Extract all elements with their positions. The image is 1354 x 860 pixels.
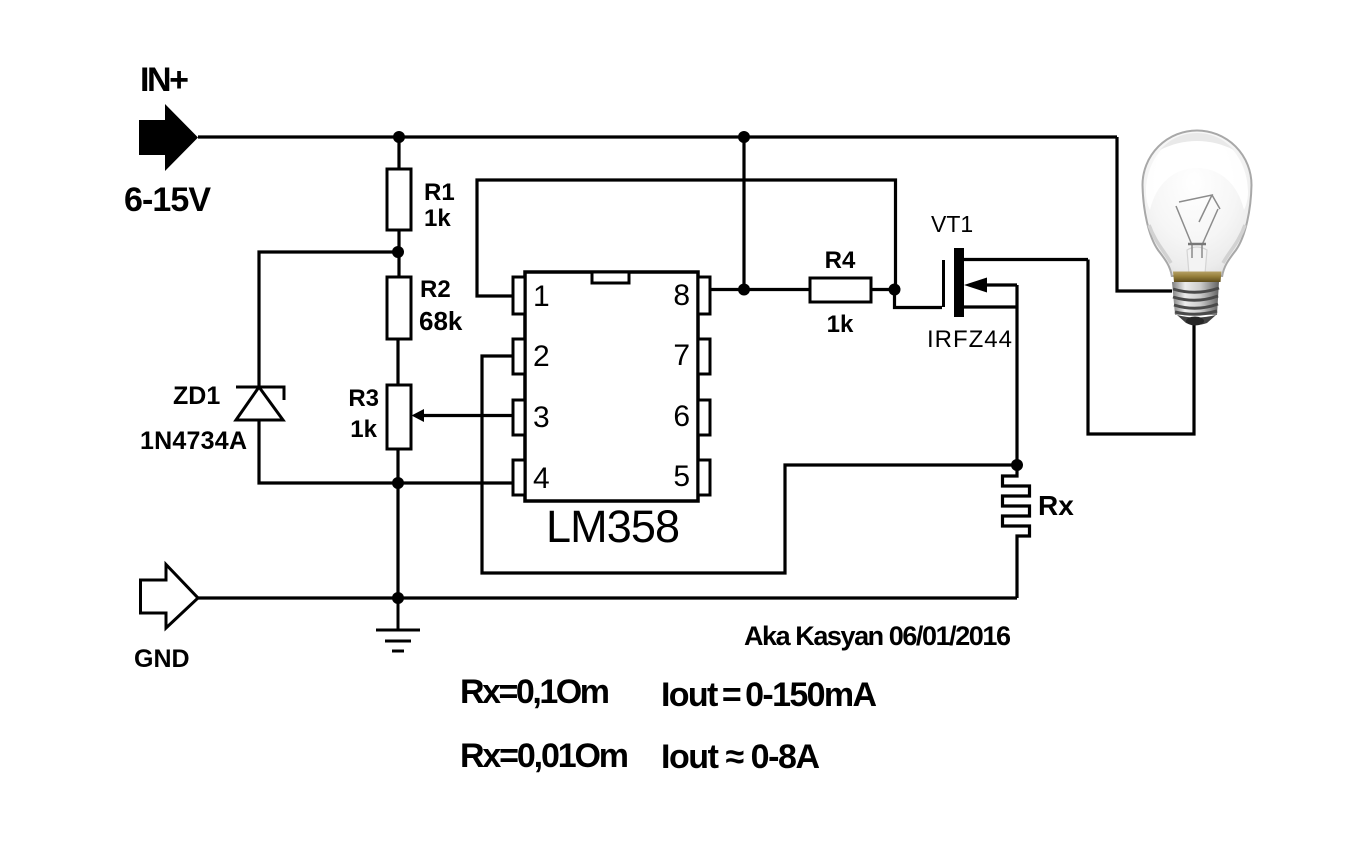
wire R2 bottom to R3 top bbox=[396, 337, 399, 385]
pin 5 tab bbox=[698, 460, 710, 495]
source terminal IN+ arrow bbox=[139, 104, 198, 171]
transistor VT1 gate plate bbox=[942, 260, 945, 307]
bulb bottom tip bbox=[1186, 317, 1204, 326]
svg-text:GND: GND bbox=[134, 645, 190, 673]
junction node dots bbox=[392, 131, 1023, 604]
transistor VT1 channel bar bbox=[954, 248, 964, 317]
svg-text:R4: R4 bbox=[825, 247, 856, 274]
bulb screw threads bbox=[1173, 288, 1219, 314]
svg-text:Iout ≈ 0-8A: Iout ≈ 0-8A bbox=[661, 738, 820, 776]
lamp EL1 (light bulb) bbox=[1143, 130, 1252, 325]
bulb glass globe bbox=[1143, 130, 1252, 276]
svg-text:1k: 1k bbox=[350, 416, 377, 443]
wire V+ to R1 top bbox=[397, 137, 400, 168]
potentiometer R3 bbox=[387, 385, 411, 449]
bulb inner stem bbox=[1187, 247, 1207, 274]
svg-text:Aka Kasyan 06/01/2016: Aka Kasyan 06/01/2016 bbox=[744, 621, 1011, 651]
svg-text:IRFZ44: IRFZ44 bbox=[927, 326, 1012, 353]
node R4 / gate bbox=[889, 284, 901, 296]
pin 7 tab bbox=[698, 339, 710, 374]
bulb bottom contact bbox=[1177, 315, 1216, 325]
ground symbol bbox=[376, 598, 420, 651]
wire GND rail bbox=[198, 596, 1017, 599]
node GND rail bbox=[392, 592, 404, 604]
svg-text:1: 1 bbox=[533, 280, 550, 313]
wire pin 8 to R4 left bbox=[709, 288, 810, 291]
wire MOSFET source lead bbox=[964, 305, 1017, 308]
svg-text:7: 7 bbox=[673, 339, 690, 372]
zener diode ZD1 triangle bbox=[236, 387, 283, 420]
wire MOSFET body lead bbox=[985, 283, 1017, 286]
svg-text:ZD1: ZD1 bbox=[173, 382, 220, 410]
pin 6 tab bbox=[698, 400, 710, 435]
svg-text:1k: 1k bbox=[827, 311, 854, 338]
transistor VT1 body arrow bbox=[964, 278, 987, 293]
wire top rail down to bulb base bbox=[1117, 137, 1172, 291]
pin 1 tab bbox=[513, 277, 525, 314]
wire pin 1 feedback to gate node bbox=[477, 180, 896, 296]
node R1/R2/ZD1 bbox=[392, 246, 404, 258]
wire R1 bottom to R2 top bbox=[397, 229, 400, 278]
node pin8 / V+ bbox=[738, 284, 750, 296]
bulb brass ring bbox=[1173, 272, 1222, 283]
svg-text:2: 2 bbox=[533, 340, 550, 373]
svg-text:68k: 68k bbox=[419, 306, 463, 336]
svg-text:6: 6 bbox=[673, 400, 690, 433]
pin 4 tab bbox=[513, 460, 525, 495]
svg-text:R3: R3 bbox=[348, 385, 379, 412]
wire gate node to MOSFET gate bbox=[895, 289, 943, 308]
svg-text:1N4734A: 1N4734A bbox=[140, 427, 247, 455]
resistor R2 bbox=[387, 277, 411, 339]
wire pin 2 to Rx top node bbox=[482, 356, 1017, 573]
resistor Rx comb bbox=[1003, 465, 1030, 598]
node source / Rx top bbox=[1011, 459, 1023, 471]
wire V+ rail to pin8 node bbox=[742, 137, 745, 289]
pin 3 tab bbox=[513, 400, 525, 435]
node top rail / R1 bbox=[393, 131, 405, 143]
bulb screw base bbox=[1172, 282, 1219, 315]
pin 2 tab bbox=[513, 339, 525, 374]
wire drain to bulb bottom loop bbox=[1088, 260, 1194, 435]
op-amp notch bbox=[592, 272, 629, 283]
bulb glass top cap shade bbox=[1160, 133, 1234, 150]
svg-text:6-15V: 6-15V bbox=[124, 181, 211, 219]
wire ZD1 bottom to pin 4 bbox=[259, 420, 513, 483]
svg-text:Iout = 0-150mA: Iout = 0-150mA bbox=[661, 676, 877, 714]
svg-text:Rx: Rx bbox=[1038, 490, 1074, 521]
bulb glass highlight bbox=[1146, 133, 1248, 210]
terminal GND arrow bbox=[141, 565, 199, 629]
wire source down to Rx node bbox=[1015, 285, 1018, 465]
resistor R4 bbox=[810, 278, 871, 302]
resistor R1 bbox=[387, 169, 411, 230]
svg-text:Rx=0,1Om: Rx=0,1Om bbox=[460, 673, 610, 711]
svg-text:8: 8 bbox=[673, 279, 690, 312]
zener diode ZD1 cathode bar bbox=[236, 387, 284, 400]
node top rail / pin8 branch bbox=[738, 131, 750, 143]
svg-text:R2: R2 bbox=[420, 276, 451, 303]
wire node R1R2 to ZD1 top bbox=[259, 252, 398, 387]
bulb filament bbox=[1176, 195, 1220, 258]
svg-text:R1: R1 bbox=[424, 179, 455, 206]
wire R3 wiper to pin 3 bbox=[422, 414, 513, 417]
svg-text:VT1: VT1 bbox=[931, 211, 973, 237]
wire top rail IN+ to bulb bbox=[198, 135, 1117, 138]
svg-text:4: 4 bbox=[533, 462, 550, 495]
svg-text:1k: 1k bbox=[424, 205, 451, 232]
node R3 bottom / pin4 bbox=[392, 477, 404, 489]
svg-text:3: 3 bbox=[533, 401, 550, 434]
svg-text:Rx=0,01Om: Rx=0,01Om bbox=[460, 737, 629, 775]
wire MOSFET drain lead bbox=[964, 258, 1088, 261]
potentiometer R3 wiper arrow bbox=[412, 409, 425, 422]
pin 8 tab bbox=[698, 277, 710, 314]
wire R3 bottom to GND rail bbox=[396, 449, 399, 598]
svg-text:IN+: IN+ bbox=[140, 61, 189, 99]
bulb glass rim shading bbox=[1149, 225, 1245, 263]
wire R4 right to gate node bbox=[871, 288, 896, 291]
op-amp U1 LM358 body bbox=[525, 272, 698, 501]
svg-text:5: 5 bbox=[673, 460, 690, 493]
svg-text:LM358: LM358 bbox=[546, 501, 680, 552]
